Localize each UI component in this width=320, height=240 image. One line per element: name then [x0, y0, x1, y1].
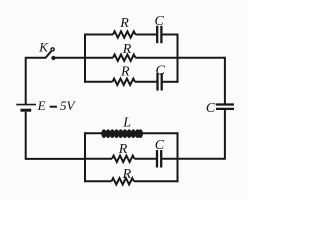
wire: bottom row2 R to C — [134, 158, 156, 160]
switch K pivot dot — [51, 56, 55, 60]
resistor R row3 — [113, 79, 135, 85]
resistor R bottom row3 — [112, 178, 134, 184]
resistor R row1 — [113, 31, 135, 37]
inductor L coil — [101, 129, 143, 138]
wire: left vertical from top corner to battery — [26, 58, 47, 104]
wire: bottom row3 right — [134, 180, 179, 182]
bottom network left bus — [84, 132, 86, 182]
wire: row1 R to C — [135, 34, 156, 36]
svg-text:E: E — [37, 98, 46, 113]
svg-text:C: C — [206, 101, 216, 116]
wire: top row3 left — [84, 81, 112, 83]
wire: right vertical lower segment to bottom row — [178, 110, 225, 159]
wire: row2 to right vertical — [135, 57, 225, 59]
svg-text:R: R — [122, 42, 132, 57]
svg-text:R: R — [119, 16, 129, 31]
switch K blade — [46, 51, 51, 57]
svg-text:R: R — [118, 142, 128, 157]
battery E — [16, 104, 36, 106]
wire: bottom row2 left (from battery corner through left bus) — [85, 158, 112, 160]
top network right bus — [177, 34, 179, 83]
capacitor C right plates — [216, 105, 234, 109]
capacitor C row3 plates — [158, 73, 162, 90]
svg-text:C: C — [155, 138, 165, 153]
bottom network right bus — [177, 132, 179, 182]
svg-text:R: R — [122, 167, 132, 182]
svg-text:C: C — [156, 63, 166, 78]
wire: inductor row right lead — [141, 132, 179, 134]
resistor R row2 top network — [113, 55, 135, 61]
wire: bottom row3 left — [84, 180, 111, 182]
svg-text:C: C — [155, 14, 165, 29]
wire: row1 C to right bus — [162, 34, 178, 36]
capacitor C row1 plates — [157, 26, 161, 43]
wire: left vertical below battery to bottom-left corner — [26, 112, 85, 159]
resistor R bottom row2 — [112, 156, 134, 162]
wire: bottom row2 C to right bus — [162, 158, 178, 160]
wire: inductor row left lead — [84, 132, 102, 134]
svg-text:5V: 5V — [60, 98, 77, 113]
svg-text:L: L — [122, 116, 131, 131]
switch K open contact circle — [51, 48, 54, 51]
wire: row3 R to C — [135, 81, 157, 83]
wire: switch to top network row2 (middle) through to right wire — [53, 57, 113, 59]
svg-text:R: R — [120, 64, 130, 79]
wire: row3 C to right bus — [163, 81, 179, 83]
capacitor C bottom row2 plates — [157, 150, 161, 167]
svg-text:K: K — [38, 39, 49, 54]
top network left bus — [84, 34, 86, 83]
wire: top row1 left — [84, 34, 113, 36]
wire: right vertical upper segment — [224, 57, 226, 104]
